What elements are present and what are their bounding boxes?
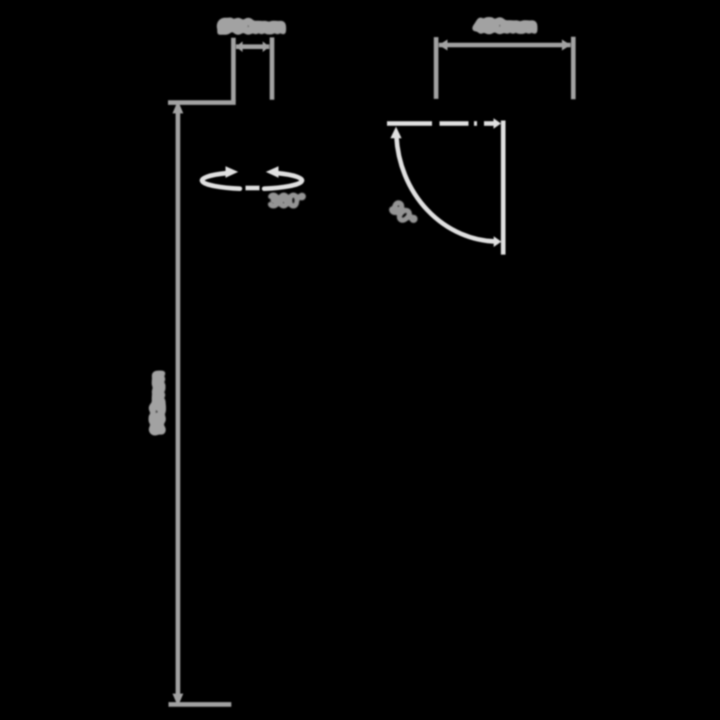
360-degree swivel symbol: left arc [202, 173, 240, 189]
360-degree swivel symbol: left arrowhead [226, 166, 239, 178]
dimension D2 line [439, 43, 571, 48]
dimension D2 right extension line [571, 37, 576, 100]
dimension D3 bottom extension line [169, 702, 232, 707]
dimension D1 line [236, 44, 269, 49]
360-degree swivel symbol: bottom dash [246, 186, 260, 191]
svg-text:360°: 360° [268, 191, 305, 211]
tilt diagram: arc bottom arrowhead [494, 236, 502, 247]
dimension D2 right arrowhead [562, 40, 571, 51]
tilt diagram: dashed line right arrowhead [494, 118, 502, 129]
tilt diagram: vertical line [501, 121, 506, 255]
dimension D2 left arrowhead [439, 40, 448, 51]
svg-text:Ø60mm: Ø60mm [218, 17, 286, 38]
dimension D3 vertical line [176, 107, 181, 700]
360-degree swivel symbol: right arc [264, 173, 302, 189]
tilt diagram: arc top arrowhead [390, 127, 401, 139]
360-degree swivel symbol: right arrowhead [266, 166, 279, 178]
dimension D1 right arrowhead [263, 41, 270, 52]
dimension D1 right extension line [270, 37, 275, 99]
tilt diagram: dashed horizontal reference line [387, 121, 495, 126]
svg-text:952mm: 952mm [148, 371, 169, 434]
dimension D1 left extension line [231, 38, 236, 101]
tilt diagram: 90-degree arc [396, 136, 497, 242]
dimension D3 top arrowhead [173, 101, 184, 114]
dimension D2 left extension line [434, 37, 439, 99]
svg-text:450mm: 450mm [473, 17, 536, 38]
dimension D1 left arrowhead [236, 41, 243, 52]
dimension D3 bottom arrowhead [173, 694, 184, 707]
dimension D3 top extension line [168, 100, 236, 105]
